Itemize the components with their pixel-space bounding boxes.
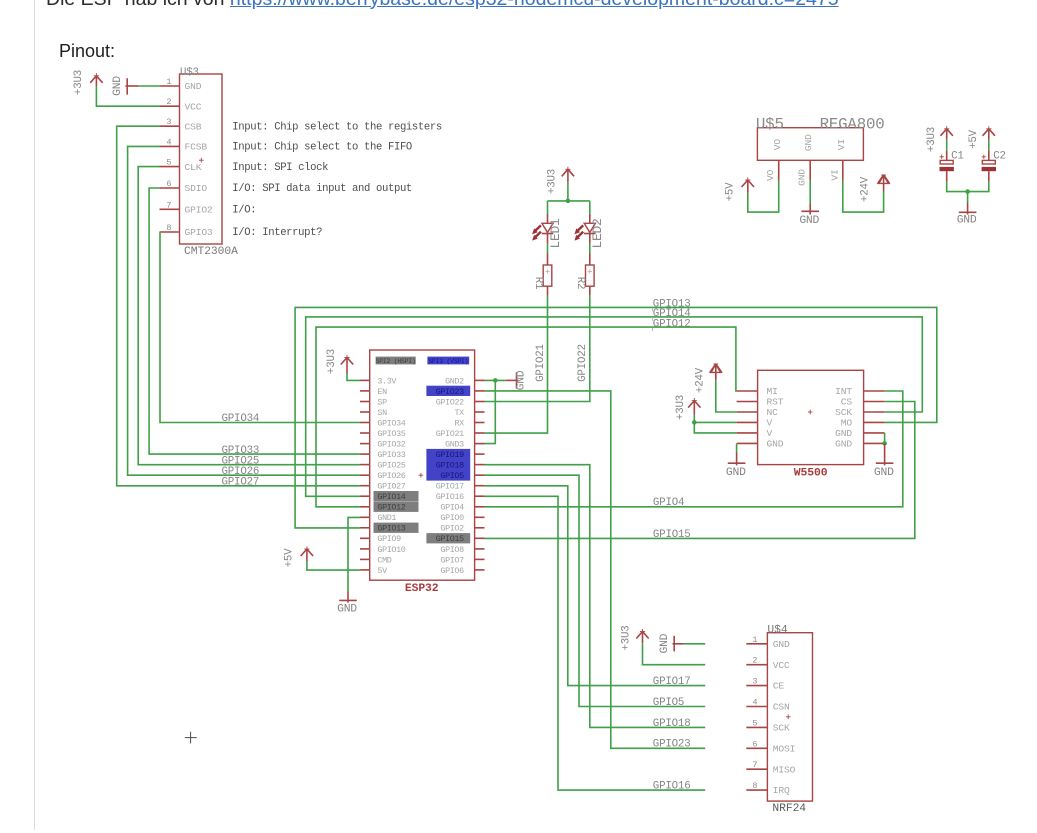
svg-text:GPIO5: GPIO5 — [653, 697, 684, 709]
wire +3U3 to U$4 pin2 VCC — [643, 643, 706, 665]
value label NRF24 — [772, 803, 806, 815]
svg-text:GND: GND — [797, 169, 808, 186]
svg-text:GPIO15: GPIO15 — [653, 529, 691, 541]
svg-text:GND: GND — [516, 370, 528, 390]
wire ESP32 GPIO23 to U$4 MOSI — [485, 391, 706, 748]
wire +24V to W5500 NC — [716, 380, 737, 412]
net label GPIO27 — [222, 477, 260, 489]
net label GPIO18 — [653, 718, 691, 730]
svg-text:FCSB: FCSB — [185, 142, 208, 153]
wire net GPIO14 ESP32 to W5500 SCK — [306, 317, 923, 496]
svg-text:Input: Chip select to the regi: Input: Chip select to the registers — [232, 121, 442, 133]
svg-text:GPIO8: GPIO8 — [440, 545, 464, 555]
svg-text:GND2: GND2 — [445, 376, 464, 386]
net label GPIO15 — [653, 529, 691, 541]
net label GPIO13 — [653, 299, 691, 312]
svg-text:INT: INT — [835, 386, 852, 397]
+5V supply arrow at ESP32 5V — [284, 546, 314, 567]
svg-text:1: 1 — [752, 635, 757, 645]
net label GPIO34 — [222, 413, 260, 425]
+3U3 supply arrow above LEDs — [547, 167, 575, 194]
svg-text:GPIO18: GPIO18 — [436, 461, 464, 471]
svg-text:GPIO22: GPIO22 — [577, 344, 589, 382]
svg-text:GND: GND — [957, 214, 977, 226]
svg-text:RST: RST — [767, 397, 784, 408]
svg-text:4: 4 — [752, 698, 757, 708]
svg-text:GPIO2: GPIO2 — [440, 524, 464, 534]
svg-text:GPIO27: GPIO27 — [377, 482, 405, 492]
LED LED2 — [574, 214, 605, 249]
wire +5V to ESP32 5V — [307, 561, 360, 570]
svg-text:MOSI: MOSI — [773, 743, 795, 754]
svg-text:GPIO17: GPIO17 — [436, 482, 464, 492]
wire ESP32 GPIO18 to U$4 SCK — [485, 465, 706, 728]
ground symbol below C1 C2 — [957, 203, 977, 227]
svg-text:GND: GND — [337, 604, 357, 616]
net label GPIO23 — [653, 739, 691, 751]
svg-text:IRQ: IRQ — [773, 785, 790, 796]
svg-text:GND: GND — [803, 134, 814, 151]
wire +5V to U$5 VO — [748, 181, 779, 212]
svg-text:+24V: +24V — [694, 367, 706, 393]
svg-text:GND: GND — [835, 438, 852, 449]
svg-text:SCK: SCK — [835, 407, 852, 418]
svg-text:SDIO: SDIO — [185, 183, 208, 194]
wire W5500 left GND down — [736, 443, 738, 452]
net label GPIO4 — [653, 497, 684, 509]
ground symbol below ESP32 — [337, 592, 357, 616]
svg-text:GPIO35: GPIO35 — [377, 429, 405, 439]
+3U3 supply arrow at U$4 VCC — [620, 625, 648, 650]
IC ESP32 body — [370, 350, 475, 580]
svg-text:REGA800: REGA800 — [820, 116, 885, 134]
ESP32 SPI3 VSPI header — [427, 357, 469, 365]
net label GPIO17 — [653, 676, 691, 688]
svg-text:2: 2 — [166, 97, 171, 107]
svg-text:GPIO34: GPIO34 — [377, 418, 405, 428]
svg-text:Input: SPI clock: Input: SPI clock — [232, 162, 328, 174]
svg-text:GND: GND — [835, 428, 852, 439]
svg-text:+5V: +5V — [968, 129, 980, 149]
svg-text:EN: EN — [377, 387, 387, 397]
svg-text:ESP32: ESP32 — [405, 583, 439, 595]
ESP32 right pins — [426, 376, 484, 576]
+3U3 supply arrow at W5500 V — [675, 395, 701, 420]
wire U$3 CSB to ESP32 GPIO27 — [117, 126, 360, 486]
svg-text:V: V — [767, 417, 773, 428]
svg-text:LED2: LED2 — [590, 218, 605, 248]
wire U$3 FCSB to ESP32 GPIO26 — [128, 146, 360, 475]
svg-text:MISO: MISO — [773, 764, 796, 775]
svg-text:+3U3: +3U3 — [620, 625, 632, 650]
name label U$5 — [756, 116, 784, 134]
svg-text:CSN: CSN — [773, 702, 790, 713]
svg-text:GPIO25: GPIO25 — [377, 461, 405, 471]
net label GPIO26 — [222, 466, 260, 478]
svg-text:GPIO2: GPIO2 — [185, 205, 213, 216]
svg-text:R2: R2 — [574, 277, 586, 290]
svg-text:GND3: GND3 — [445, 440, 464, 450]
capacitor C2 polarized — [982, 151, 996, 182]
net label GPIO33 — [222, 445, 260, 457]
svg-text:GPIO12: GPIO12 — [653, 318, 691, 330]
net label GPIO22 vertical — [577, 344, 589, 382]
svg-text:+24V: +24V — [860, 176, 872, 202]
svg-text:CSB: CSB — [185, 121, 202, 132]
ground symbol at U$3 pin 1 — [112, 76, 139, 96]
IC U$5 REGA800 body — [757, 128, 863, 161]
U$5 pin VO — [765, 160, 779, 181]
svg-text:SPI2 (HSPI): SPI2 (HSPI) — [376, 358, 416, 365]
W5500 left pins — [737, 386, 784, 449]
ground symbol at U$4 pin 1 — [659, 633, 683, 653]
ESP32 SPI2 HSPI header — [376, 357, 416, 365]
wire ESP32 GPIO17 to U$4 CE — [485, 486, 706, 686]
svg-text:CMT2300A: CMT2300A — [184, 246, 238, 258]
svg-text:CMD: CMD — [377, 555, 391, 565]
svg-text:GPIO3: GPIO3 — [185, 227, 213, 238]
svg-text:6: 6 — [166, 179, 171, 189]
wire ESP32 GPIO16 to U$4 IRQ — [485, 496, 706, 790]
svg-text:Input: Chip select to the FIFO: Input: Chip select to the FIFO — [232, 142, 412, 154]
svg-text:GPIO23: GPIO23 — [436, 387, 464, 397]
svg-text:U$3: U$3 — [180, 67, 199, 79]
net label GPIO14 — [653, 308, 691, 321]
svg-text:GPIO27: GPIO27 — [222, 477, 260, 489]
svg-text:GPIO5: GPIO5 — [440, 471, 464, 481]
svg-text:VO: VO — [765, 169, 776, 181]
svg-text:GPIO4: GPIO4 — [440, 503, 464, 513]
wire U$3 pin1 to GND — [139, 85, 160, 87]
svg-text:GND: GND — [767, 438, 784, 449]
svg-text:3: 3 — [752, 677, 757, 687]
wire W5500 CS to net GPIO15 — [485, 402, 915, 539]
ground symbol below W5500 right — [874, 443, 894, 479]
wire net GPIO13 ESP32 to W5500 MO — [295, 307, 937, 528]
+5V supply arrow at U$5 VO — [725, 177, 754, 201]
IC W5500 body — [758, 370, 864, 464]
svg-text:GPIO23: GPIO23 — [653, 739, 691, 751]
svg-text:GPIO32: GPIO32 — [377, 440, 405, 450]
U$5 pin VI — [829, 160, 843, 181]
net label GPIO5 — [653, 697, 684, 709]
wire U$3 GPIO3 to ESP32 GPIO34 — [160, 232, 360, 423]
svg-text:GND: GND — [112, 76, 124, 96]
wire ESP32 GPIO5 to U$4 CSN — [485, 475, 706, 706]
svg-text:LED1: LED1 — [548, 218, 563, 249]
wire U$5 GND down — [809, 181, 811, 204]
svg-text:GPIO4: GPIO4 — [653, 497, 684, 509]
svg-text:CS: CS — [841, 397, 853, 408]
svg-text:GPIO26: GPIO26 — [377, 471, 405, 481]
svg-text:GPIO21: GPIO21 — [436, 429, 464, 439]
IC U$4 NRF24 body — [767, 633, 812, 801]
+24V supply arrow at U$5 VI — [860, 175, 890, 202]
name label U$4 — [767, 624, 787, 636]
IC U$3 CMT2300A body — [180, 74, 223, 244]
svg-text:3: 3 — [166, 117, 171, 127]
svg-text:CLK: CLK — [185, 162, 202, 173]
svg-text:U$4: U$4 — [767, 624, 787, 636]
svg-text:GND1: GND1 — [377, 513, 396, 523]
svg-text:GPIO0: GPIO0 — [440, 513, 464, 523]
wire +5V to C2 — [988, 140, 990, 151]
wire U$5 VI to +24V — [843, 181, 884, 212]
svg-text:R1: R1 — [532, 277, 544, 290]
svg-text:GPIO15: GPIO15 — [436, 534, 464, 544]
svg-text:GPIO17: GPIO17 — [653, 676, 691, 688]
wire +3U3 to ESP32 3.3V — [347, 374, 360, 381]
svg-text:GND: GND — [799, 215, 819, 227]
wire GND to U$4 pin1 — [683, 643, 705, 645]
U$4 pins 1-8 with names — [746, 635, 795, 796]
wire U$3 CLK to ESP32 GPIO25 — [138, 167, 360, 465]
svg-text:NC: NC — [767, 407, 779, 418]
svg-text:VI: VI — [836, 139, 847, 150]
svg-text:GPIO6: GPIO6 — [440, 566, 464, 576]
capacitor C1 polarized — [940, 151, 954, 182]
svg-text:GPIO33: GPIO33 — [377, 450, 405, 460]
svg-text:GND: GND — [659, 633, 671, 653]
U$3 pin description texts — [232, 121, 442, 239]
value label W5500 — [794, 467, 828, 479]
svg-text:5: 5 — [752, 718, 757, 728]
wire R2 to ESP32 GPIO22 — [485, 296, 590, 402]
svg-text:5V: 5V — [377, 566, 387, 576]
svg-text:W5500: W5500 — [794, 467, 828, 479]
svg-text:GPIO13: GPIO13 — [377, 524, 405, 534]
svg-text:VO: VO — [772, 139, 783, 151]
svg-text:SCK: SCK — [773, 723, 790, 734]
svg-text:GPIO22: GPIO22 — [436, 397, 464, 407]
wire ESP32 GND2 GND3 junction — [485, 378, 506, 444]
wire W5500 INT to net GPIO4 — [485, 391, 903, 507]
ground symbol below W5500 left — [726, 453, 746, 480]
svg-text:NRF24: NRF24 — [772, 803, 806, 815]
svg-text:I/O:: I/O: — [232, 205, 256, 217]
svg-text:+5V: +5V — [725, 182, 737, 202]
svg-text:I/O: SPI data input and output: I/O: SPI data input and output — [232, 183, 412, 195]
U$3 pins 1-8 with names — [160, 77, 213, 238]
resistor R1 — [532, 254, 552, 296]
ESP32 left pins — [360, 376, 419, 576]
svg-text:+3U3: +3U3 — [547, 169, 559, 194]
value label CMT2300A — [184, 246, 238, 258]
wire C1 C2 to ground junction — [947, 181, 989, 202]
svg-text:GPIO16: GPIO16 — [436, 492, 464, 502]
svg-text:MO: MO — [841, 417, 853, 428]
svg-text:VI: VI — [829, 169, 840, 180]
svg-text:8: 8 — [752, 781, 757, 791]
svg-text:I/O: Interrupt?: I/O: Interrupt? — [232, 227, 322, 239]
svg-text:RX: RX — [454, 418, 464, 428]
svg-text:4: 4 — [166, 137, 171, 147]
net label GPIO16 — [653, 781, 691, 793]
++5V supply arrow at C2 — [968, 126, 995, 149]
net label GPIO12 — [653, 318, 691, 331]
svg-text:C2: C2 — [993, 150, 1006, 162]
ground symbol right of ESP32 GND2 — [506, 370, 528, 390]
svg-text:7: 7 — [752, 760, 757, 770]
svg-text:GPIO9: GPIO9 — [377, 534, 401, 544]
svg-text:2: 2 — [752, 656, 757, 666]
++3U3 supply arrow at C1 — [926, 126, 953, 152]
svg-text:CE: CE — [773, 681, 785, 692]
svg-text:6: 6 — [752, 739, 757, 749]
svg-text:V: V — [767, 428, 773, 439]
wire +3U3 to U$3 pin2 VCC — [96, 86, 159, 106]
svg-text:GPIO12: GPIO12 — [377, 503, 405, 513]
svg-text:GPIO19: GPIO19 — [436, 450, 464, 460]
name label C1 — [951, 150, 964, 162]
wire +3U3 to LED1 LED2 anodes — [548, 183, 590, 214]
svg-text:VCC: VCC — [185, 101, 202, 112]
svg-text:+3U3: +3U3 — [926, 127, 938, 152]
svg-text:GND: GND — [874, 467, 894, 479]
name label C2 — [993, 150, 1006, 162]
LED LED1 — [532, 214, 563, 249]
wire LED2 to R2 — [589, 244, 591, 254]
svg-text:SN: SN — [377, 408, 387, 418]
svg-text:1: 1 — [166, 77, 171, 87]
svg-text:+3U3: +3U3 — [326, 349, 338, 374]
wire W5500 right GND junction — [882, 433, 887, 446]
value label ESP32 — [405, 583, 439, 595]
net label GPIO25 — [222, 455, 260, 467]
wire ESP32 GND1 down — [348, 517, 360, 591]
svg-text:GPIO10: GPIO10 — [377, 545, 405, 555]
ground symbol below U$5 — [799, 204, 819, 228]
+3U3 supply arrow at ESP32 3.3V — [326, 349, 353, 374]
svg-text:SP: SP — [377, 397, 387, 407]
svg-text:GPIO16: GPIO16 — [653, 781, 691, 793]
name label U$3 — [180, 67, 199, 79]
value label REGA800 — [820, 116, 885, 134]
+24V supply arrow at W5500 NC — [694, 364, 722, 393]
svg-text:GPIO18: GPIO18 — [653, 718, 691, 730]
svg-text:SPI3 (VSPI): SPI3 (VSPI) — [428, 358, 468, 365]
svg-text:3.3V: 3.3V — [377, 376, 396, 386]
W5500 right pins — [835, 386, 884, 449]
svg-text:5: 5 — [166, 158, 171, 168]
wire net GPIO12 ESP32 to W5500 MI — [316, 327, 737, 507]
wire R1 to ESP32 GPIO21 — [485, 296, 548, 433]
svg-text:GND: GND — [773, 639, 790, 650]
svg-text:VCC: VCC — [773, 660, 790, 671]
resistor R2 — [574, 254, 594, 296]
svg-text:MI: MI — [767, 386, 778, 397]
wire +3U3 to W5500 V pins — [692, 415, 737, 433]
svg-text:C1: C1 — [951, 150, 964, 162]
U$5 pin GND — [797, 160, 811, 186]
svg-text:GPIO7: GPIO7 — [440, 555, 464, 565]
svg-text:GPIO34: GPIO34 — [222, 413, 260, 425]
svg-text:+3U3: +3U3 — [73, 70, 85, 95]
svg-text:TX: TX — [454, 408, 464, 418]
svg-text:GPIO21: GPIO21 — [535, 344, 547, 382]
+3U3 supply arrow at U$3 pin 2 — [73, 70, 103, 95]
wire +3U3 to C1 — [946, 140, 948, 151]
svg-text:GND: GND — [726, 467, 746, 479]
svg-text:GND: GND — [185, 81, 202, 92]
svg-text:U$5: U$5 — [756, 116, 784, 134]
svg-text:8: 8 — [166, 223, 171, 233]
svg-text:+3U3: +3U3 — [675, 395, 687, 420]
net label GPIO21 vertical — [535, 344, 547, 382]
wire LED1 to R1 — [547, 244, 549, 254]
svg-text:GPIO14: GPIO14 — [377, 492, 405, 502]
sheet origin cross — [185, 732, 197, 744]
svg-text:+5V: +5V — [284, 548, 296, 568]
svg-text:7: 7 — [166, 200, 171, 210]
wire U$3 SDIO to ESP32 GPIO33 — [149, 188, 360, 454]
